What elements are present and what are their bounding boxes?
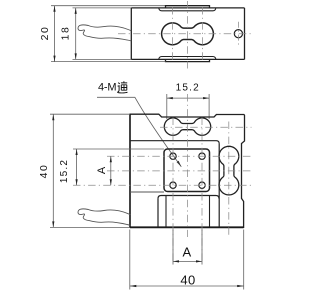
svg-text:18: 18 [60,26,71,41]
plate with 4 holes [164,149,210,192]
pedestal left side [157,199,159,228]
centerline circle left [172,7,174,63]
left dims: 40 [50,113,130,115]
svg-text:A: A [96,166,108,174]
arrows 40 bottom [130,285,137,287]
cap top U1 [166,6,210,8]
arrows 15.2 left [76,149,78,155]
centerline binocular right [228,122,230,238]
outline [130,114,245,227]
arrows 40 left [52,114,54,120]
small side hole [234,30,242,38]
arrows A bottom [173,260,179,262]
leader line [97,97,181,167]
centerline row2 holes [73,184,252,186]
cap bottom [166,59,210,61]
extension line 20-top + cap top [51,5,166,7]
svg-text:20: 20 [40,26,51,41]
hole 3 [170,182,176,188]
svg-text:15.2: 15.2 [59,159,70,183]
centerline row1 holes [107,155,252,157]
dim line [167,97,209,99]
15.2 left dim [76,149,78,185]
right groove vertical [218,144,220,228]
svg-text:4-M: 4-M [98,82,116,94]
arrows 20 [53,6,55,12]
body bottom line [73,58,132,60]
ext 15.2-left top [73,148,164,150]
collar top line [159,8,216,11]
ext lines [166,94,168,119]
binocular hole (side view) [162,23,214,45]
arrows A left [110,156,112,162]
step line [130,141,219,144]
extension line 20-bottom [51,61,166,63]
centerline mid horizontal [107,170,252,172]
glyph tong (hand drawn) [117,81,127,93]
hole 2 [199,153,205,159]
centerline small hole [237,22,239,47]
svg-text:A: A [182,244,191,259]
hole 4 [199,182,205,188]
body top line [73,7,132,9]
centerline vertical main (top view) [186,1,188,69]
dimension 18 [75,8,77,60]
svg-text:40: 40 [39,164,50,179]
A left dim [110,156,112,185]
centerlines vertical columns [172,118,174,265]
binocular top (plan) [164,118,210,135]
hole 1 [170,153,176,159]
arrows 18 [75,8,77,14]
centerline circle right [202,7,204,63]
right vertical binocular [219,146,239,195]
cable (side view) [78,25,131,41]
pedestal line [158,196,219,199]
svg-text:15.2: 15.2 [176,83,200,94]
centerline row binocular top [160,126,252,128]
body right edge [244,8,246,60]
dimension 20 [54,6,56,62]
cable (plan view) [78,209,130,225]
svg-text:40: 40 [180,272,195,287]
centerline vertical main [186,94,188,237]
collar bottom line [159,57,216,60]
thin line left of plate [130,191,164,193]
cap edges from below [165,196,167,228]
centerline horizontal (top view) [118,33,252,35]
bottom edge heavy [130,226,244,228]
body left edge [130,8,132,60]
bottom dims [129,230,131,290]
left edge heavy [129,114,131,227]
